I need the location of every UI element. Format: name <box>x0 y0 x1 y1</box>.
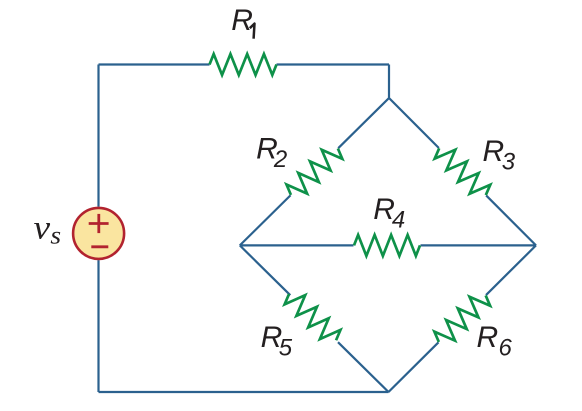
svg-text:R: R <box>477 321 499 354</box>
svg-text:R: R <box>231 4 253 37</box>
svg-text:2: 2 <box>273 146 287 173</box>
svg-text:6: 6 <box>499 335 513 362</box>
svg-text:5: 5 <box>279 335 293 362</box>
svg-text:s: s <box>50 222 61 250</box>
svg-text:v: v <box>34 208 51 246</box>
svg-text:3: 3 <box>502 148 516 175</box>
svg-text:4: 4 <box>392 207 405 234</box>
